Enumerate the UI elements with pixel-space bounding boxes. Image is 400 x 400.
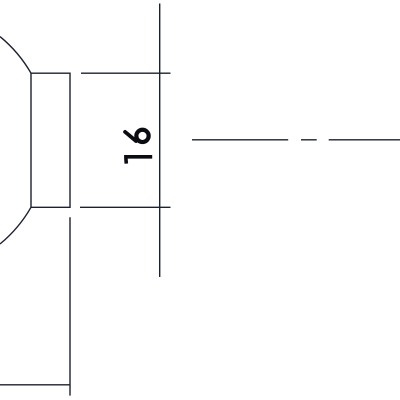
digit 6 bowl — [136, 130, 148, 142]
arc upper sphere edge — [0, 37, 31, 74]
digit 6 tail — [125, 132, 136, 141]
digit 1 stem — [124, 155, 152, 159]
rectangle body outline — [31, 73, 70, 207]
extension line bottom — [80, 206, 171, 208]
lower view horizontal edge — [0, 384, 70, 386]
digit 1 flag — [124, 159, 128, 164]
dimension line vertical — [159, 4, 161, 278]
arc lower sphere edge — [0, 207, 31, 244]
extension line top — [81, 72, 171, 74]
centerline dash-dot — [192, 139, 400, 141]
dimension text 16 (rotated, drawn as paths) — [124, 130, 152, 164]
lower view vertical edge — [69, 217, 71, 395]
